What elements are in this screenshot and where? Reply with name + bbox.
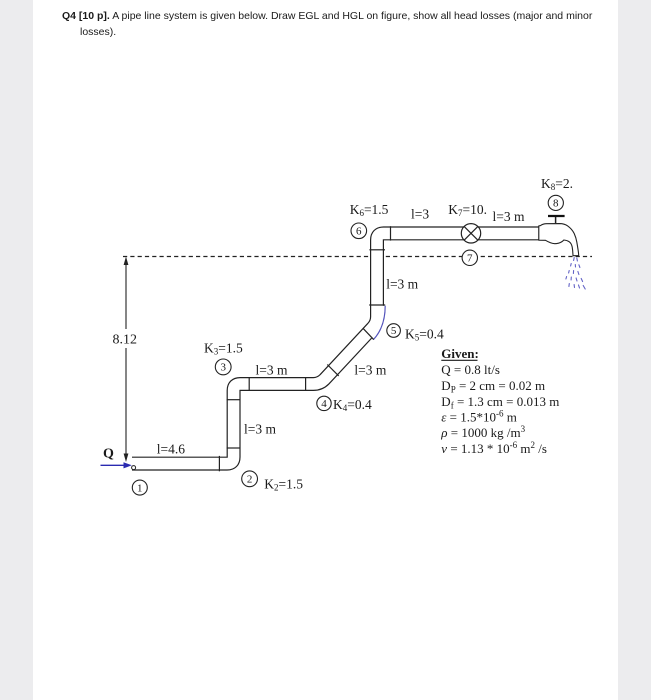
node 2 xyxy=(242,471,258,487)
svg-text:6: 6 xyxy=(356,226,362,238)
svg-text:2: 2 xyxy=(247,474,253,486)
joint tick elbow2 left xyxy=(218,456,220,471)
svg-text:l=3 m: l=3 m xyxy=(244,421,276,436)
given heading xyxy=(440,346,559,456)
joint tick elbow5 diagonal xyxy=(363,328,374,339)
joint tick elbow6 right xyxy=(390,226,392,240)
svg-text:8.12: 8.12 xyxy=(113,333,138,348)
node 6 xyxy=(351,223,367,239)
svg-text:5: 5 xyxy=(391,325,397,337)
node 3 xyxy=(215,359,231,375)
faucet body and spout xyxy=(539,224,579,256)
svg-text:DP = 2 cm = 0.02 m: DP = 2 cm = 0.02 m xyxy=(441,378,545,395)
svg-text:Q: Q xyxy=(103,446,114,461)
svg-text:K3=1.5: K3=1.5 xyxy=(204,341,243,357)
svg-text:K4=0.4: K4=0.4 xyxy=(333,397,372,413)
inlet lip detail xyxy=(132,466,136,470)
node 7 xyxy=(462,250,477,265)
faucet stem xyxy=(555,217,557,223)
node 5 xyxy=(387,324,401,338)
node 4 xyxy=(317,396,331,410)
pipe interior (white) xyxy=(132,233,547,463)
joint tick elbow5 top xyxy=(369,304,385,306)
svg-text:ρ = 1000 kg /m3: ρ = 1000 kg /m3 xyxy=(440,424,525,440)
valve K7 xyxy=(461,224,480,243)
joint tick faucet xyxy=(538,226,540,241)
svg-text:Q = 0.8 lt/s: Q = 0.8 lt/s xyxy=(441,362,500,377)
svg-text:l=4.6: l=4.6 xyxy=(157,441,185,456)
svg-text:K8=2.: K8=2. xyxy=(541,176,573,192)
node 8 xyxy=(548,195,563,210)
joint tick elbow3 bottom xyxy=(227,399,241,401)
svg-text:4: 4 xyxy=(321,398,327,410)
svg-text:K7=10.: K7=10. xyxy=(448,202,487,218)
svg-text:Given:: Given: xyxy=(441,346,479,361)
pipe outline (black) xyxy=(132,233,547,463)
diagram labels xyxy=(103,176,573,492)
svg-text:K6=1.5: K6=1.5 xyxy=(350,202,389,218)
svg-text:1: 1 xyxy=(137,482,143,494)
svg-text:K2=1.5: K2=1.5 xyxy=(264,476,303,492)
dimension line 8.12 lower segment with down arrow xyxy=(125,348,127,457)
svg-text:3: 3 xyxy=(220,362,226,374)
node numbers xyxy=(137,198,559,495)
white cover over inner elbow 5 edge xyxy=(368,306,386,340)
dimension line 8.12 upper segment with up arrow xyxy=(124,257,129,463)
title line 2 xyxy=(80,26,116,38)
joint tick elbow3 right xyxy=(248,377,250,391)
svg-text:8: 8 xyxy=(553,198,559,210)
joint tick elbow6 bottom xyxy=(369,249,385,251)
faucet handle bar xyxy=(548,215,565,217)
node circles xyxy=(132,195,563,495)
svg-text:l=3 m: l=3 m xyxy=(386,277,418,292)
node 1 xyxy=(132,480,147,495)
svg-text:l=3 m: l=3 m xyxy=(256,362,288,377)
svg-text:ν = 1.13 * 10-6 m2 /s: ν = 1.13 * 10-6 m2 /s xyxy=(441,440,547,456)
svg-text:ε = 1.5*10-6 m: ε = 1.5*10-6 m xyxy=(441,409,517,425)
joint tick elbow4 left xyxy=(305,377,307,391)
svg-text:l=3 m: l=3 m xyxy=(493,209,525,224)
datum dashed line xyxy=(123,256,592,258)
svg-text:7: 7 xyxy=(467,253,473,265)
joint tick elbow2 top xyxy=(227,447,241,449)
flow arrow Q (blue) xyxy=(101,462,132,468)
title line 1 xyxy=(62,10,592,22)
svg-text:K5=0.4: K5=0.4 xyxy=(405,326,444,342)
svg-text:l=3 m: l=3 m xyxy=(354,362,386,377)
water spray xyxy=(566,258,585,290)
blue arc inner elbow 5 xyxy=(373,306,385,340)
joint tick elbow4 diagonal xyxy=(327,365,338,376)
svg-text:l=3: l=3 xyxy=(411,207,429,222)
